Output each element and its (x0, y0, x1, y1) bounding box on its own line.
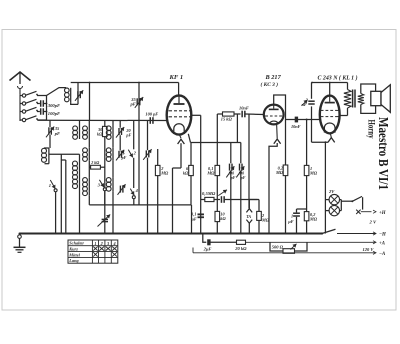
svg-text:0,5MΩ: 0,5MΩ (202, 191, 216, 196)
switch S2 (band) (22, 102, 25, 105)
wire (49, 135, 51, 148)
potentiometer 500Ω (283, 249, 295, 254)
table marks Kurz (93, 247, 98, 251)
svg-text:500 Ω: 500 Ω (272, 244, 284, 249)
wire (-A line) (193, 252, 376, 254)
resistor 2MΩ (157, 149, 159, 165)
tube B217 envelope (264, 105, 284, 125)
svg-text:−A: −A (379, 252, 386, 257)
wire (65, 160, 67, 234)
capacitor 10nF (295, 117, 298, 123)
tube B217 anode (273, 105, 275, 109)
terminal -H (373, 232, 376, 235)
capacitor 1µF (296, 209, 298, 212)
svg-text:MΩ: MΩ (275, 170, 284, 175)
capacitor 2µF (207, 239, 210, 245)
terminal -A (373, 251, 376, 254)
trimmer capacitor 20pF (118, 128, 120, 135)
wire (speaker loop) (361, 84, 376, 113)
wire (361, 211, 372, 213)
svg-text:10nF: 10nF (291, 124, 301, 129)
wire (312, 141, 329, 143)
svg-text:100: 100 (228, 172, 234, 176)
svg-text:MΩ: MΩ (309, 170, 318, 175)
tube B217 filament arrow (276, 124, 279, 139)
transformer core (352, 90, 354, 108)
tube C243N grid (321, 109, 324, 111)
svg-text:3: 3 (106, 241, 109, 246)
resistor 0.5MΩ (205, 197, 214, 201)
wire (grid line) (286, 119, 321, 121)
svg-text:Mittel: Mittel (68, 252, 80, 257)
wire (112, 192, 114, 234)
tube KF1 anode (178, 96, 180, 103)
coil L4 (88, 121, 90, 127)
wire (138, 83, 140, 205)
transformer primary (344, 90, 351, 109)
coil L6 (83, 178, 88, 183)
switch 4 (130, 189, 134, 196)
svg-text:B 217: B 217 (265, 74, 282, 81)
svg-text:15 kΩ: 15 kΩ (221, 117, 233, 122)
tube C243N filament dome (324, 123, 335, 133)
trimmer capacitor 35pF (osc) (136, 98, 138, 105)
resistor 20kΩ (237, 240, 246, 244)
wire (grid cap lead) (178, 83, 180, 96)
resistor 6kΩ (190, 143, 192, 166)
svg-text:pF: pF (230, 176, 236, 180)
tube KF1 filament arrow (179, 135, 181, 139)
tube C243N envelope (320, 96, 340, 134)
capacitor 2nF (311, 83, 313, 99)
svg-text:4: 4 (112, 241, 115, 246)
node (46, 103, 48, 105)
svg-text:+A: +A (379, 242, 386, 247)
wire (HT rail top) (71, 82, 179, 84)
svg-text:2V: 2V (328, 189, 335, 194)
terminal +H (373, 210, 376, 213)
tube C243N anode (329, 97, 331, 102)
svg-text:+H: +H (379, 211, 386, 216)
svg-text:kΩ: kΩ (97, 131, 103, 136)
svg-text:2µF: 2µF (203, 246, 212, 251)
trimmer capacitor 35pF (antenna) (48, 127, 50, 134)
resistor 0.1MΩ (215, 165, 220, 175)
trimmer capacitor (119, 186, 121, 193)
antenna (10, 72, 31, 81)
wire (71, 102, 78, 104)
tube KF1 filament dome (174, 124, 184, 134)
wire (49, 153, 80, 155)
svg-text:Horny: Horny (366, 120, 376, 139)
wire (203, 234, 207, 243)
svg-text:pF: pF (240, 176, 246, 180)
switch S4 (band) (22, 118, 25, 121)
transformer secondary (358, 94, 364, 105)
switch (heater) (341, 200, 352, 202)
lamp 2V lower (329, 205, 339, 215)
tube C243N filament arrow (330, 133, 331, 137)
wire (+A line) (211, 241, 237, 243)
svg-text:MΩ: MΩ (160, 170, 169, 175)
wire (269, 143, 277, 234)
wire (screen row) (191, 142, 241, 144)
coil L5 (83, 148, 88, 153)
wire (46, 96, 48, 121)
tube KF1 envelope (167, 95, 192, 134)
trimmer capacitor (145, 150, 147, 157)
wire (anode) (191, 114, 201, 116)
wire (19, 94, 21, 121)
svg-text:KF 1: KF 1 (169, 74, 184, 81)
wire (88, 195, 90, 205)
coil L2 (44, 147, 49, 149)
jack TA top (246, 209, 252, 213)
capacitor 0.1µF (198, 213, 204, 215)
resistor 30kΩ (104, 121, 106, 127)
resistor 2MΩ (jack) (258, 200, 260, 212)
wire (329, 83, 331, 96)
tube B217 filament (270, 121, 278, 123)
capacitor 100pF (40, 108, 42, 115)
wire (133, 121, 135, 150)
capacitor 100pF (149, 117, 151, 124)
coil L8 (106, 148, 111, 153)
wire (172, 168, 174, 234)
wire (AVC rail) (89, 204, 191, 206)
resistor 1MΩ (306, 119, 308, 121)
svg-text:kΩ: kΩ (220, 216, 226, 221)
svg-text:100pF: 100pF (48, 111, 60, 116)
wire (236, 114, 238, 143)
resistor 0.2MΩ (283, 165, 288, 176)
resistor 0.2MΩ (bias) (304, 212, 309, 221)
trimmer capacitor 100pF (229, 164, 231, 171)
svg-text:Lang: Lang (68, 258, 79, 263)
svg-text:100 pF: 100 pF (145, 111, 158, 116)
coil L3 (long) (79, 154, 81, 161)
svg-text:2 kΩ: 2 kΩ (90, 160, 99, 165)
svg-text:pF: pF (121, 155, 127, 160)
trimmer capacitor 5pF (118, 151, 120, 158)
svg-text:pF: pF (54, 131, 60, 136)
svg-text:pF: pF (130, 101, 136, 106)
tube C243N grid 2 (321, 116, 324, 118)
switch (bus) (321, 232, 323, 234)
wire (340, 199, 342, 201)
svg-text:pF: pF (125, 132, 131, 137)
svg-text:2: 2 (100, 241, 103, 246)
wire (326, 199, 330, 201)
svg-text:MΩ: MΩ (206, 170, 215, 175)
svg-text:20 kΩ: 20 kΩ (234, 246, 247, 251)
svg-text:TA: TA (246, 214, 251, 219)
connector X (356, 210, 360, 214)
wire (60, 154, 62, 233)
switch S3 (band) (22, 110, 25, 113)
svg-text:µF: µF (287, 219, 293, 224)
switch 1 (50, 180, 55, 189)
resistor 10kΩ (215, 211, 220, 221)
wire (anode) (340, 115, 348, 117)
coil L7 (112, 121, 114, 127)
trimmer capacitor 100pF (239, 164, 241, 171)
svg-text:( KC 3 ): ( KC 3 ) (261, 81, 279, 88)
jack TA bottom (246, 220, 252, 224)
wire (89, 83, 91, 121)
svg-text:300pF: 300pF (47, 103, 60, 108)
wire (HT top right) (312, 82, 348, 84)
speaker (371, 91, 381, 105)
resistor 2kΩ (89, 166, 90, 168)
wire (79, 190, 81, 234)
svg-text:MΩ: MΩ (261, 217, 270, 222)
svg-text:1: 1 (94, 241, 96, 246)
switch table frame (68, 240, 118, 263)
wire (-H line) (337, 233, 376, 235)
svg-text:kΩ: kΩ (183, 170, 189, 175)
table marks Mittel (93, 252, 98, 256)
wire (47, 88, 67, 96)
svg-text:µF: µF (190, 217, 196, 222)
coil L1 (65, 88, 70, 93)
coil L9 (106, 178, 111, 183)
capacitor (220, 196, 222, 203)
coil L3a (79, 121, 81, 127)
lamp 2V upper (329, 194, 339, 204)
tube KF1 grid (169, 110, 173, 112)
ground (19, 233, 21, 235)
capacitor 10nF (241, 111, 243, 118)
capacitor 300pF (40, 100, 42, 107)
svg-text:100: 100 (238, 172, 244, 176)
svg-text:2 V: 2 V (369, 220, 377, 225)
wire (anode top) (274, 95, 286, 120)
switch S1 (band) (22, 94, 25, 97)
wire (grid bus) (38, 119, 167, 121)
trimmer arrow (218, 190, 227, 196)
tube B217 grid (265, 115, 268, 117)
svg-text:Schalter: Schalter (69, 241, 84, 246)
wire (270, 242, 283, 251)
wire (180, 143, 182, 168)
trimmer capacitor (77, 91, 79, 98)
ground bus (20, 233, 323, 235)
trimmer capacitor (padding) (102, 218, 108, 220)
svg-text:120 V: 120 V (363, 247, 375, 252)
svg-text:10nF: 10nF (239, 106, 249, 111)
resistor 15kΩ (217, 113, 222, 115)
svg-text:Kurz: Kurz (68, 246, 78, 251)
terminal +A (373, 241, 376, 244)
svg-text:MΩ: MΩ (309, 216, 318, 221)
switch 3 (99, 180, 104, 187)
svg-text:−H: −H (379, 233, 386, 238)
svg-text:1: 1 (49, 183, 51, 188)
tube KF1 grid 2 (169, 116, 173, 118)
wire (248, 114, 250, 208)
switch 2 (128, 150, 133, 158)
wire (216, 114, 218, 234)
svg-text:C 243 N ( KL 1 ): C 243 N ( KL 1 ) (318, 75, 358, 82)
wire (285, 120, 287, 234)
wire (295, 242, 308, 251)
